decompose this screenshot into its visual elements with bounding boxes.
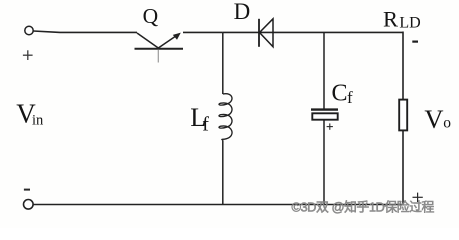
svg-text:o: o — [443, 115, 451, 132]
diode D symbol — [259, 19, 273, 47]
svg-text:©3D双 @知乎1D保险过程: ©3D双 @知乎1D保险过程 — [292, 199, 435, 214]
svg-text:f: f — [347, 88, 353, 107]
input terminal top (circle) — [25, 26, 33, 34]
svg-text:Q: Q — [143, 4, 159, 28]
transistor Q base stub — [157, 50, 159, 63]
wire: resistor RLD to bottom rail — [402, 131, 404, 205]
wire: node A down to inductor Lf — [222, 32, 224, 94]
transistor Q base bar — [135, 48, 184, 50]
minus sign at load top — [412, 40, 418, 42]
capacitor Cf top plate — [311, 108, 338, 110]
wire: transistor emitter to node A — [183, 31, 223, 33]
svg-text:V: V — [424, 104, 443, 134]
svg-text:R: R — [383, 7, 398, 32]
wire: diode cathode node down to capacitor Cf — [323, 32, 325, 108]
minus sign at bottom input terminal — [24, 189, 30, 191]
bottom rail wire — [33, 204, 403, 206]
wire: inductor Lf to bottom rail — [222, 140, 224, 204]
transistor Q emitter diagonal with arrow — [158, 36, 175, 48]
transistor Q1 symbol — [135, 33, 184, 63]
diode D cathode bar — [258, 19, 260, 47]
wire: capacitor Cf to bottom rail — [323, 121, 325, 205]
plus sign at input — [23, 50, 33, 60]
diode D triangle — [260, 19, 274, 47]
input terminal bottom (circle) — [24, 200, 34, 210]
svg-text:LD: LD — [399, 15, 420, 32]
resistor RLD body — [399, 100, 407, 131]
capacitor Cf bottom plate (box) — [312, 113, 337, 119]
capacitor Cf polarity plus — [327, 123, 333, 129]
svg-text:in: in — [32, 112, 44, 128]
svg-text:C: C — [332, 80, 348, 106]
svg-text:f: f — [202, 114, 209, 136]
inductor Lf coil — [219, 94, 232, 141]
transistor Q collector diagonal — [137, 33, 158, 48]
svg-text:D: D — [234, 0, 251, 24]
plus sign at load bottom — [413, 193, 423, 202]
wire: right vertical down to resistor RLD — [402, 32, 404, 101]
node A: top wire through diode to corner — [223, 31, 403, 33]
transistor Q emitter arrowhead — [173, 33, 181, 40]
wire: top terminal to transistor base lead — [33, 31, 137, 32]
